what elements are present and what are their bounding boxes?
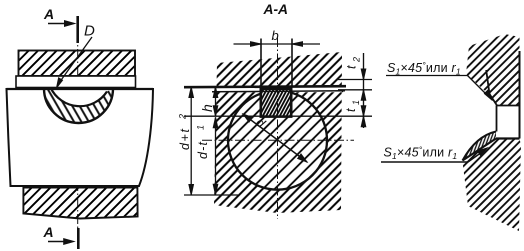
centerline horizontal: [202, 139, 354, 141]
dimension d+t2 (left outer): [189, 87, 194, 195]
arrow for section direction (top): [48, 21, 75, 27]
svg-text:1: 1: [351, 100, 361, 105]
svg-text:A: A: [43, 6, 54, 22]
svg-text:2: 2: [352, 57, 362, 63]
shaft circle (white with sparse hatch): [228, 91, 327, 190]
chamfer chord S1x45 (bottom corner): [463, 139, 497, 161]
extension line hub keyway top (right, t2): [337, 79, 372, 81]
svg-text:d-t: d-t: [196, 141, 210, 159]
hub detail hatch (upper region): [466, 34, 520, 105]
key side edge in detail: [496, 106, 498, 132]
key cross-section (dense hatch): [261, 89, 291, 117]
fillet radius arc r1 (bottom corner): [463, 132, 497, 161]
svg-text:1: 1: [196, 125, 206, 130]
extension line bore (right): [338, 89, 372, 91]
svg-text:t: t: [345, 65, 359, 69]
key top line (thick, across hub): [184, 86, 346, 87]
dimension h (left inner, top): [213, 87, 218, 116]
shaft bottom line: [11, 185, 140, 187]
diameter d arrow inside circle: [243, 114, 307, 162]
shaft detail hatch (lower region): [463, 140, 522, 232]
hub bore edge in detail: [497, 105, 520, 107]
bottom label underline: [381, 161, 468, 163]
keyway side wall edge: [486, 70, 489, 94]
bottom leader with arrow: [468, 148, 488, 162]
extension line keyway bottom (full width): [184, 115, 372, 117]
dimension t2 (right, top): [361, 53, 366, 128]
shaft body outline: [7, 89, 154, 186]
chamfer edge (top corner): [490, 94, 498, 106]
key seat outer arc: [44, 89, 113, 124]
section plane thick tick bottom: [77, 228, 80, 249]
svg-text:A-A: A-A: [263, 2, 289, 17]
hub lower block (hatched): [23, 188, 137, 219]
dimension t1 (right, bottom): [361, 106, 366, 127]
dimension b (top): [234, 39, 321, 87]
centerline vertical: [277, 37, 279, 219]
top label underline: [386, 75, 468, 77]
key bottom edge in detail: [496, 137, 520, 139]
lune between arc and chamfer (hatched): [463, 132, 497, 161]
arrow for section direction (bottom): [48, 239, 74, 245]
svg-text:2: 2: [178, 114, 188, 120]
section plane thick tick top: [76, 16, 79, 43]
hub bore line: [212, 91, 345, 92]
svg-text:D: D: [84, 23, 95, 40]
hub upper block (hatched): [19, 51, 136, 77]
crescent hatching between key and seat: [44, 88, 113, 124]
hub rim strip: [16, 76, 136, 88]
svg-text:h: h: [199, 104, 215, 112]
block right edge: [519, 51, 521, 139]
key inner arc: [51, 88, 108, 107]
svg-text:t: t: [344, 108, 358, 112]
hub hatch (square with bore hole and white band), evenodd: [214, 52, 343, 213]
svg-text:b: b: [272, 28, 279, 43]
shaft top surface line: [7, 88, 154, 90]
top leader with arrow: [468, 76, 493, 101]
dimension d-t1 (left inner, bottom): [213, 117, 218, 194]
section line A-A (dash-dot centerline): [77, 16, 79, 249]
svg-text:d+t: d+t: [178, 127, 192, 150]
svg-text:A: A: [43, 224, 54, 240]
extension line circle bottom (left): [184, 194, 238, 196]
